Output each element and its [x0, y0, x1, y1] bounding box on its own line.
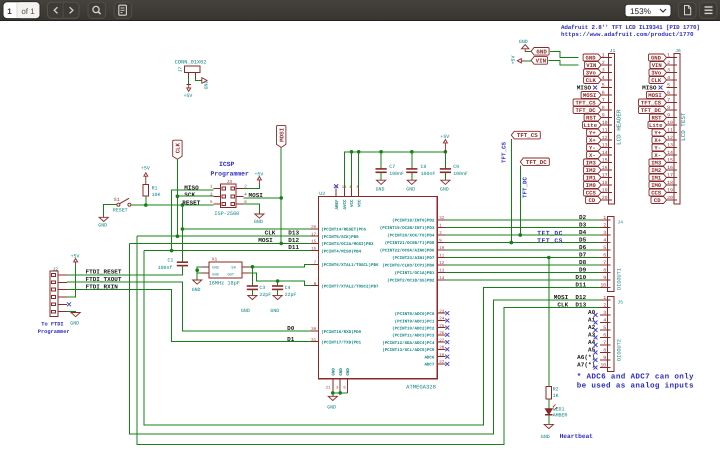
- wire D11 loop to J4 pin10: [144, 251, 600, 426]
- svg-text:GND: GND: [440, 187, 449, 193]
- connector J4 DIGOUT1: [607, 216, 614, 291]
- svg-text:(PCINT4/MISO)PB4: (PCINT4/MISO)PB4: [321, 249, 361, 254]
- resistor R1: [143, 184, 149, 195]
- wire PC6 reset row: [182, 228, 311, 230]
- svg-text:19: 19: [667, 188, 673, 194]
- wire R1 to reset row: [145, 196, 147, 205]
- svg-text:ADC7: ADC7: [424, 363, 434, 368]
- wire D13 row: [137, 235, 311, 237]
- svg-text:J2: J2: [53, 266, 59, 272]
- ground below C3: [251, 289, 253, 295]
- svg-text:3: 3: [603, 230, 606, 236]
- svg-text:A0: A0: [588, 309, 596, 316]
- svg-text:16: 16: [667, 165, 673, 171]
- svg-text:DIGOUT1: DIGOUT1: [616, 268, 622, 290]
- svg-text:5: 5: [603, 325, 606, 331]
- svg-text:Programmer: Programmer: [38, 329, 70, 335]
- svg-text:RST: RST: [651, 115, 662, 122]
- svg-text:Programmer: Programmer: [211, 171, 250, 178]
- wire GND tag to J1 pin1: [550, 51, 579, 57]
- svg-text:CCS: CCS: [651, 190, 662, 197]
- svg-text:17: 17: [602, 173, 608, 179]
- wire X1 left pins to ground: [197, 267, 202, 273]
- wire D11 row: [144, 250, 311, 252]
- wire +5V to VIN tag: [525, 60, 532, 62]
- svg-text:LCD TEST: LCD TEST: [680, 112, 687, 141]
- svg-text:16: 16: [602, 165, 608, 171]
- +5V power on rail: [444, 143, 446, 152]
- global label TFT_CS: [511, 131, 540, 139]
- svg-text:4: 4: [667, 75, 670, 81]
- +5V power above R1: [145, 176, 147, 184]
- svg-text:R1: R1: [152, 185, 158, 191]
- svg-text:6: 6: [602, 90, 605, 96]
- svg-text:CLK: CLK: [651, 77, 662, 84]
- svg-text:(PCINT20/XCK/T0)PD4: (PCINT20/XCK/T0)PD4: [387, 234, 435, 239]
- annotate button: [679, 2, 697, 18]
- svg-text:J5: J5: [618, 299, 624, 305]
- svg-text:ADC6: ADC6: [424, 355, 434, 360]
- svg-text:To FTDI: To FTDI: [41, 322, 63, 328]
- svg-text:100nF: 100nF: [453, 171, 468, 177]
- svg-text:3: 3: [667, 68, 670, 74]
- svg-text:7: 7: [603, 260, 606, 266]
- svg-text:C4: C4: [285, 285, 291, 291]
- svg-text:1: 1: [7, 7, 12, 16]
- menu button: [700, 2, 718, 18]
- svg-text:CD: CD: [654, 197, 661, 204]
- IC ADC no-connect marks: [445, 311, 449, 366]
- svg-text:(PCINT3/OC2A/MOSI)PB3: (PCINT3/OC2A/MOSI)PB3: [321, 242, 374, 247]
- wire S1 left to GND: [104, 205, 117, 218]
- svg-text:+5V: +5V: [255, 171, 264, 177]
- global label TFT_DC: [520, 158, 549, 166]
- svg-text:(PCINT22/OC0A/AIN0)PD6: (PCINT22/OC0A/AIN0)PD6: [380, 249, 435, 254]
- svg-text:MISO: MISO: [577, 85, 592, 92]
- svg-text:D0: D0: [287, 325, 295, 332]
- svg-text:10: 10: [600, 363, 606, 369]
- wire RESET vertical to C1: [181, 205, 183, 262]
- wire C1 to FTDI_RESET row: [67, 266, 183, 275]
- svg-text:3: 3: [602, 68, 605, 74]
- svg-text:TFT_DC: TFT_DC: [641, 107, 662, 114]
- wire TFT_CS vertical: [510, 139, 512, 243]
- IC right pin names upper: [380, 219, 435, 284]
- svg-text:(PCINT6/XTAL1/TOSCL)PB6: (PCINT6/XTAL1/TOSCL)PB6: [321, 263, 379, 268]
- svg-text:(PCINT10/ADC2)PC2: (PCINT10/ADC2)PC2: [392, 326, 435, 331]
- svg-text:A2: A2: [588, 324, 596, 331]
- svg-text:EN: EN: [232, 265, 236, 270]
- ground below C7: [380, 172, 382, 180]
- svg-text:D12: D12: [288, 237, 299, 244]
- svg-text:A7(*): A7(*): [577, 362, 595, 369]
- svg-text:1: 1: [602, 53, 605, 59]
- svg-text:C7: C7: [389, 164, 395, 170]
- svg-text:MOSI: MOSI: [278, 127, 285, 141]
- svg-text:D1: D1: [287, 336, 295, 343]
- svg-text:U2: U2: [319, 191, 325, 197]
- svg-text:TFT_DC: TFT_DC: [576, 107, 597, 114]
- wire D7 to R2: [548, 258, 550, 387]
- svg-text:GND: GND: [331, 368, 336, 376]
- svg-text:3Vo: 3Vo: [651, 70, 662, 77]
- svg-text:100nF: 100nF: [389, 171, 404, 177]
- svg-text:1: 1: [603, 295, 606, 301]
- svg-text:17: 17: [667, 173, 673, 179]
- svg-text:(PCINT0/CLKO/ICP1)PB0: (PCINT0/CLKO/ICP1)PB0: [382, 264, 435, 269]
- svg-text:J3: J3: [227, 179, 233, 185]
- svg-text:SCK: SCK: [184, 192, 195, 199]
- svg-text:GND: GND: [204, 81, 210, 90]
- svg-text:(PCINT13/SCL/ADC5)PC5: (PCINT13/SCL/ADC5)PC5: [382, 348, 435, 353]
- svg-text:16MHz 18pF: 16MHz 18pF: [209, 280, 240, 286]
- svg-text:GND: GND: [376, 187, 385, 193]
- svg-text:TFT_CS: TFT_CS: [517, 132, 538, 139]
- svg-text:C1: C1: [168, 258, 174, 264]
- connector J3 ISP-2560: [221, 184, 236, 208]
- svg-text:A4: A4: [588, 339, 596, 346]
- svg-text:2: 2: [602, 60, 605, 66]
- svg-text:GND: GND: [519, 39, 528, 45]
- svg-text:Y+: Y+: [589, 130, 596, 137]
- svg-text:C3: C3: [259, 285, 265, 291]
- svg-text:RESET: RESET: [182, 199, 200, 206]
- IC right pin stubs: [437, 220, 445, 364]
- svg-text:9: 9: [603, 355, 606, 361]
- svg-text:11: 11: [667, 128, 673, 134]
- svg-text:of 1: of 1: [21, 7, 35, 16]
- svg-text:6: 6: [603, 333, 606, 339]
- IC left pin stubs: [311, 229, 318, 342]
- wire D13 loop to J5 pin2: [137, 236, 600, 444]
- svg-text:11: 11: [602, 128, 608, 134]
- svg-text:RST: RST: [586, 115, 597, 122]
- svg-text:TFT_CS: TFT_CS: [576, 100, 597, 107]
- svg-text:8: 8: [603, 348, 606, 354]
- svg-text:Lite: Lite: [584, 122, 598, 129]
- wire R2 to LED1: [548, 399, 550, 409]
- wire FTDI_TXOUT to D0: [67, 282, 311, 331]
- svg-text:18: 18: [667, 180, 673, 186]
- svg-text:GND: GND: [327, 405, 336, 411]
- svg-text:IM3: IM3: [651, 160, 662, 167]
- svg-text:Lite: Lite: [649, 122, 663, 129]
- ground at X1: [193, 280, 202, 284]
- svg-text:X+: X+: [654, 137, 661, 144]
- svg-text:CLK: CLK: [265, 230, 276, 237]
- svg-text:GND: GND: [70, 320, 79, 326]
- LED1 AMBER: [545, 409, 552, 415]
- wire LED1 to ground: [548, 415, 550, 425]
- svg-text:4: 4: [603, 318, 606, 324]
- IC right pin numbers: [439, 216, 445, 365]
- svg-text:J4: J4: [618, 219, 624, 225]
- svg-text:X-: X-: [654, 152, 661, 159]
- svg-text:Y-: Y-: [589, 145, 596, 152]
- wires IC to J4 D2-D10: [446, 219, 601, 221]
- svg-text:18: 18: [602, 180, 608, 186]
- IC left pin numbers: [311, 225, 317, 343]
- svg-text:LCD HEADER: LCD HEADER: [615, 109, 622, 145]
- IC bottom GND pins: [326, 368, 351, 393]
- svg-text:CCS: CCS: [586, 190, 597, 197]
- svg-text:6: 6: [667, 90, 670, 96]
- svg-text:6: 6: [603, 253, 606, 259]
- power flag VIN tag: [531, 57, 548, 65]
- search button: [88, 2, 106, 18]
- svg-text:GND: GND: [586, 55, 597, 62]
- side pane button: [114, 2, 132, 18]
- junction dot TFT_CS D5: [510, 241, 514, 245]
- svg-text:S1: S1: [114, 197, 120, 203]
- svg-text:ICSP: ICSP: [219, 161, 235, 168]
- svg-text:GND: GND: [192, 287, 201, 293]
- wire FTDI_RXIN to D1: [67, 290, 311, 342]
- svg-text:R2: R2: [553, 387, 559, 393]
- svg-text:+5V: +5V: [440, 134, 449, 140]
- IC left pin names: [321, 228, 379, 346]
- capacitor C1: [177, 261, 188, 263]
- svg-text:20: 20: [602, 195, 608, 201]
- svg-text:A1: A1: [588, 317, 596, 324]
- no-connect AREF: [334, 184, 338, 188]
- svg-text:AREF: AREF: [335, 199, 340, 209]
- ground at ISP pin6: [243, 204, 259, 214]
- svg-text:3: 3: [603, 310, 606, 316]
- wire gnd arrow to GND tag: [527, 51, 532, 53]
- svg-text:TFT_DC: TFT_DC: [522, 177, 529, 198]
- svg-text:GND: GND: [212, 265, 218, 270]
- svg-text:IM2: IM2: [586, 167, 597, 174]
- svg-text:19: 19: [602, 188, 608, 194]
- svg-text:TFT_DC: TFT_DC: [526, 159, 547, 166]
- svg-text:IM1: IM1: [586, 175, 597, 182]
- crystal X1: [209, 262, 242, 278]
- wire X1 EN to IC pin7: [249, 264, 311, 267]
- svg-text:3Vo: 3Vo: [586, 70, 597, 77]
- svg-text:9: 9: [603, 275, 606, 281]
- svg-text:10: 10: [602, 120, 608, 126]
- svg-text:153%: 153%: [630, 7, 651, 16]
- svg-text:MISO: MISO: [642, 85, 657, 92]
- svg-text:J7: J7: [178, 67, 184, 73]
- svg-text:8: 8: [602, 105, 605, 111]
- svg-text:15: 15: [602, 158, 608, 164]
- svg-text:15: 15: [667, 158, 673, 164]
- svg-text:5: 5: [602, 83, 605, 89]
- svg-text:X+: X+: [589, 137, 596, 144]
- svg-text:* ADC6 and ADC7 can only: * ADC6 and ADC7 can only: [577, 372, 694, 381]
- ground below LED1: [544, 424, 553, 428]
- svg-text:GND: GND: [241, 308, 250, 314]
- svg-text:X1: X1: [212, 257, 218, 263]
- svg-text:VCC: VCC: [350, 199, 355, 207]
- svg-text:be used as analog inputs: be used as analog inputs: [577, 381, 694, 390]
- svg-text:7: 7: [602, 98, 605, 104]
- IC top pins AREF AVCC VCC VCC: [333, 185, 362, 209]
- svg-text:MOSI: MOSI: [258, 237, 273, 244]
- svg-text:TFT_DC: TFT_DC: [537, 230, 563, 237]
- svg-text:13: 13: [602, 143, 608, 149]
- IC right pin names lower ADC: [382, 312, 435, 368]
- svg-text:GND: GND: [339, 368, 344, 376]
- svg-text:A3: A3: [588, 332, 596, 339]
- svg-text:100nf: 100nf: [158, 265, 173, 271]
- svg-text:Heartbeat: Heartbeat: [560, 433, 594, 440]
- svg-text:FTDI_RESET: FTDI_RESET: [86, 268, 122, 275]
- connector J7 CONN_01X02: [185, 66, 200, 73]
- svg-text:22pF: 22pF: [285, 292, 297, 298]
- ground below S1: [99, 217, 108, 221]
- svg-text:+5V: +5V: [71, 254, 80, 260]
- svg-text:J1: J1: [610, 48, 616, 54]
- svg-text:CD: CD: [588, 197, 595, 204]
- svg-text:OUT: OUT: [228, 272, 235, 277]
- svg-text:D11: D11: [288, 244, 299, 251]
- svg-text:Y-: Y-: [654, 145, 661, 152]
- +5V power at J2: [67, 266, 76, 297]
- svg-text:9: 9: [602, 113, 605, 119]
- ground below C4: [277, 289, 279, 295]
- svg-text:5: 5: [603, 245, 606, 251]
- svg-text:(PCINT14/RESET)PC6: (PCINT14/RESET)PC6: [321, 228, 366, 233]
- svg-text:100nF: 100nF: [421, 171, 436, 177]
- nav back/forward buttons: [48, 2, 80, 18]
- svg-text:(PCINT19/OC2B/INT1)PD3: (PCINT19/OC2B/INT1)PD3: [380, 226, 435, 231]
- connector J1 LCD HEADER: [609, 54, 615, 205]
- capacitor C9: [444, 152, 446, 169]
- svg-text:CLK: CLK: [586, 77, 597, 84]
- svg-text:GND: GND: [270, 308, 279, 314]
- svg-text:10K: 10K: [152, 192, 161, 198]
- svg-text:(PCINT11/ADC3)PC3: (PCINT11/ADC3)PC3: [392, 334, 435, 339]
- svg-text:14: 14: [602, 150, 608, 156]
- svg-text:+5V: +5V: [184, 93, 193, 99]
- svg-text:C9: C9: [453, 164, 459, 170]
- svg-text:5: 5: [667, 83, 670, 89]
- svg-text:RESET: RESET: [113, 208, 128, 214]
- svg-text:GND: GND: [536, 48, 547, 55]
- wire reset row S1 to ISP pin5: [131, 204, 213, 206]
- wire CLK flag to SCK row: [176, 159, 178, 236]
- svg-text:GND: GND: [651, 55, 662, 62]
- svg-text:10: 10: [667, 120, 673, 126]
- svg-text:GND: GND: [254, 219, 263, 225]
- capacitor C7: [380, 152, 382, 169]
- svg-text:ATMEGA328: ATMEGA328: [406, 383, 436, 390]
- junction dot TFT_DC D4: [519, 233, 523, 237]
- page indicator 1 of 1: [3, 2, 40, 19]
- svg-text:X-: X-: [589, 152, 596, 159]
- IC U2 ATMEGA328 body: [318, 197, 437, 379]
- svg-text:22pF: 22pF: [259, 292, 271, 298]
- wire IC ground join: [333, 392, 348, 394]
- resistor R2: [546, 386, 552, 399]
- svg-text:7: 7: [603, 340, 606, 346]
- svg-text:Y+: Y+: [654, 130, 661, 137]
- power flag GND tag: [531, 48, 549, 56]
- svg-text:20: 20: [667, 195, 673, 201]
- svg-text:8: 8: [603, 268, 606, 274]
- svg-text:VIN: VIN: [586, 62, 596, 69]
- svg-text:+5V: +5V: [511, 56, 517, 65]
- svg-text:IM0: IM0: [586, 182, 597, 189]
- svg-text:LED1: LED1: [553, 407, 565, 413]
- svg-text:12: 12: [602, 135, 608, 141]
- svg-text:(PCINT18/INT0)PD2: (PCINT18/INT0)PD2: [392, 219, 435, 224]
- svg-text:(PCINT17/TXD)PD1: (PCINT17/TXD)PD1: [321, 340, 361, 345]
- svg-text:A6(*): A6(*): [577, 354, 595, 361]
- svg-text:9: 9: [667, 113, 670, 119]
- svg-text:J6: J6: [675, 48, 681, 54]
- svg-text:MOSI: MOSI: [583, 92, 596, 99]
- svg-text:ISP-2560: ISP-2560: [214, 211, 239, 217]
- svg-text:10: 10: [600, 283, 606, 289]
- +5V power on J7: [188, 78, 190, 85]
- svg-text:1: 1: [603, 215, 606, 221]
- svg-text:GND: GND: [406, 187, 415, 193]
- ground below IC: [328, 396, 337, 400]
- svg-text:VCC: VCC: [357, 199, 362, 207]
- svg-text:(PCINT12/SDA/ADC4)PC4: (PCINT12/SDA/ADC4)PC4: [382, 341, 435, 346]
- capacitor C8: [411, 152, 413, 169]
- svg-text:https://www.adafruit.com/produ: https://www.adafruit.com/product/1770: [561, 31, 694, 38]
- svg-text:(PCINT23/AIN1)PD7: (PCINT23/AIN1)PD7: [392, 256, 435, 261]
- junction dot heartbeat D7: [547, 256, 551, 260]
- svg-text:13: 13: [667, 143, 673, 149]
- wire TFT_DC vertical: [519, 166, 521, 235]
- svg-text:GND: GND: [212, 272, 218, 277]
- svg-text:(PCINT16/RXD)PD0: (PCINT16/RXD)PD0: [321, 330, 361, 335]
- svg-text:IM0: IM0: [651, 182, 662, 189]
- global label CLK: [173, 140, 182, 159]
- svg-text:D13: D13: [288, 230, 299, 237]
- svg-text:GND: GND: [541, 434, 550, 440]
- svg-text:1K: 1K: [553, 393, 559, 399]
- svg-text:C8: C8: [421, 164, 427, 170]
- wire VIN tag to J1 pin2: [548, 60, 578, 65]
- connector J6 LCD TEST: [674, 54, 680, 205]
- svg-text:1: 1: [667, 53, 670, 59]
- wire SCK row: [177, 195, 213, 197]
- wire +5V rail above IC: [344, 152, 445, 189]
- svg-text:AVCC: AVCC: [343, 199, 348, 209]
- svg-text:8: 8: [667, 105, 670, 111]
- svg-text:GND: GND: [98, 223, 107, 229]
- +5V power at ISP pin2: [243, 184, 259, 189]
- svg-text:(PCINT8/ADC0)PC0: (PCINT8/ADC0)PC0: [395, 312, 435, 317]
- svg-text:4: 4: [602, 75, 605, 81]
- svg-text:TFT_CS: TFT_CS: [641, 100, 662, 107]
- svg-text:12: 12: [667, 135, 673, 141]
- ground below C8: [411, 172, 413, 180]
- svg-text:2: 2: [667, 60, 670, 66]
- no-connect at J2 pin5: [67, 302, 71, 306]
- svg-text:A5: A5: [588, 347, 596, 354]
- svg-text:MOSI: MOSI: [648, 92, 661, 99]
- svg-text:2: 2: [603, 223, 606, 229]
- svg-text:21: 21: [326, 386, 331, 391]
- svg-text:(PCINT21/OC0B/T1)PD5: (PCINT21/OC0B/T1)PD5: [385, 241, 435, 246]
- svg-text:IM3: IM3: [586, 160, 597, 167]
- svg-text:+5V: +5V: [141, 165, 150, 171]
- ground below C9: [444, 172, 446, 180]
- ground at J2 pin6: [67, 311, 76, 314]
- svg-text:AMBER: AMBER: [553, 413, 568, 419]
- svg-text:CONN_01X02: CONN_01X02: [175, 59, 207, 65]
- svg-text:VIN: VIN: [536, 58, 547, 65]
- svg-text:14: 14: [667, 150, 673, 156]
